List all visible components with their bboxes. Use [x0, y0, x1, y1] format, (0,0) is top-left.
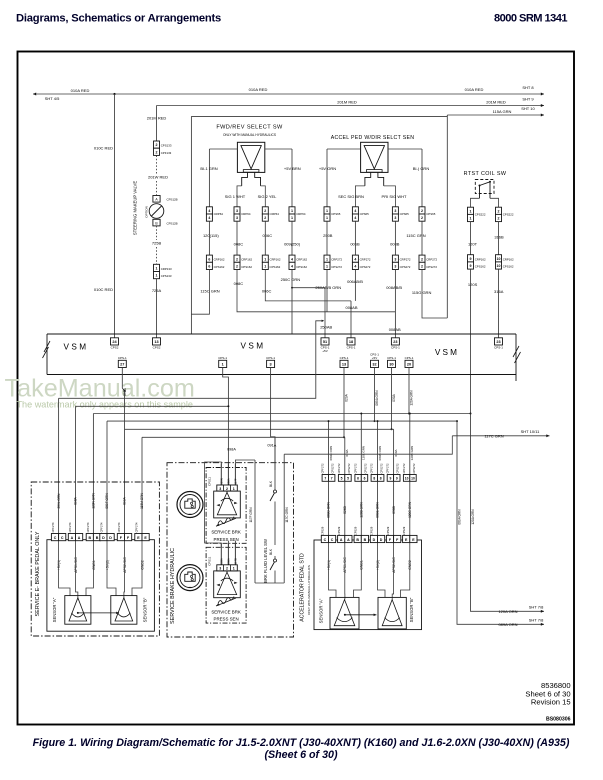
wire col x237 [236, 221, 238, 255]
svg-text:1: 1 [470, 209, 472, 213]
connector CRP162/CPS162 pin 1 [262, 255, 268, 262]
svg-text:6: 6 [208, 265, 210, 269]
accel pedal connector pin D [370, 535, 377, 542]
svg-text:CPS2: CPS2 [153, 345, 161, 349]
svg-text:1: 1 [291, 209, 293, 213]
svg-text:CPS162: CPS162 [214, 265, 225, 269]
svg-text:The watermark only appears on: The watermark only appears on this sampl… [17, 400, 193, 410]
svg-text:CRP133: CRP133 [161, 267, 172, 271]
svg-text:010A RED: 010A RED [249, 87, 268, 92]
svg-text:(Sheet 6 of 30): (Sheet 6 of 30) [264, 749, 337, 761]
svg-text:BLK: BLK [269, 548, 273, 555]
svg-text:APS1-SIG: APS1-SIG [343, 557, 347, 573]
svg-text:6: 6 [208, 257, 210, 261]
svg-text:CPS162: CPS162 [503, 265, 514, 269]
svg-text:CPS11: CPS11 [208, 477, 212, 486]
VSM band top line [47, 333, 516, 335]
svg-text:2: 2 [421, 209, 423, 213]
svg-text:C: C [324, 538, 327, 542]
VSM pin 13 CPS-1 [340, 360, 348, 367]
connector CRP162/CPS162 pin 10 [496, 255, 502, 262]
svg-text:006C: 006C [262, 289, 272, 294]
svg-text:CPS65: CPS65 [360, 212, 370, 216]
svg-text:CPS162: CPS162 [296, 265, 307, 269]
svg-text:Diagrams, Schematics or Arrang: Diagrams, Schematics or Arrangements [16, 12, 221, 24]
svg-text:CPF274: CPF274 [117, 522, 121, 532]
svg-text:1: 1 [233, 487, 235, 491]
svg-text:CRP272: CRP272 [331, 258, 342, 262]
svg-text:CPS162: CPS162 [241, 265, 252, 269]
svg-text:CPS272: CPS272 [426, 265, 437, 269]
brake fluid level switch [274, 437, 276, 490]
svg-text:098A: 098A [74, 496, 78, 504]
svg-text:PRESS SEN: PRESS SEN [214, 537, 239, 542]
svg-text:120T: 120T [468, 242, 478, 247]
svg-text:2: 2 [226, 567, 228, 571]
svg-text:098A: 098A [227, 478, 231, 484]
svg-text:CPS272: CPS272 [331, 463, 335, 474]
brake pedal connector pin F [117, 534, 124, 541]
svg-text:CRP162: CRP162 [214, 258, 225, 262]
svg-text:259L ORN: 259L ORN [57, 493, 61, 509]
svg-text:CPS133: CPS133 [161, 144, 172, 148]
svg-text:B: B [356, 538, 359, 542]
accel sensor B wiring [378, 543, 386, 598]
VSM pin 18 CPS-1 [347, 338, 355, 345]
VSM pin 27 CPS-1 [118, 360, 126, 367]
wire 120G GRN [409, 481, 411, 535]
connector CPS65 pin 3 [392, 207, 398, 214]
VSM pin 30 CPS-1 [388, 360, 396, 367]
wire 089D ORN [328, 481, 330, 535]
svg-text:CPS162: CPS162 [270, 265, 281, 269]
pedal sensor FWD/REV select sw [237, 142, 264, 172]
svg-text:3: 3 [219, 487, 221, 491]
svg-text:SIG 2 YEL: SIG 2 YEL [258, 194, 278, 199]
wire 089A GRN from pin 32 [374, 368, 376, 422]
wire 098A from pin 1 [223, 368, 229, 468]
svg-text:3: 3 [394, 265, 396, 269]
svg-text:030B: 030B [392, 506, 396, 513]
svg-text:010C RED: 010C RED [94, 146, 113, 151]
svg-text:089N: 089N [219, 478, 223, 484]
svg-text:10: 10 [497, 264, 501, 268]
svg-text:D: D [380, 538, 383, 542]
connector CRP64 pin 3 [234, 207, 240, 214]
svg-text:SENSOR "A": SENSOR "A" [319, 598, 324, 623]
svg-text:117C GRN: 117C GRN [484, 434, 503, 439]
svg-text:7: 7 [324, 477, 326, 481]
svg-text:029A: 029A [345, 393, 349, 401]
wire col x327 [326, 221, 328, 255]
svg-text:6: 6 [357, 477, 359, 481]
svg-text:089E ORN: 089E ORN [376, 502, 380, 518]
svg-text:089A ORN: 089A ORN [458, 509, 462, 525]
VSM pin 1 CPS-1 [219, 360, 227, 367]
svg-text:4: 4 [354, 209, 356, 213]
wire 008AB bus [237, 270, 395, 312]
switch bottom tie [255, 582, 284, 584]
svg-text:2: 2 [236, 265, 238, 269]
wire 010A RED top horizontal [33, 93, 544, 95]
svg-text:4: 4 [291, 257, 293, 261]
wire col x422 [421, 221, 423, 255]
svg-text:3: 3 [394, 257, 396, 261]
svg-text:23: 23 [393, 340, 397, 344]
svg-text:CPS29: CPS29 [321, 526, 325, 535]
connector CRP64 pin 2 [262, 207, 268, 214]
svg-text:3: 3 [394, 216, 396, 220]
svg-text:089A GRN: 089A GRN [375, 390, 379, 406]
svg-text:030A: 030A [392, 393, 396, 401]
svg-text:120A GRN: 120A GRN [471, 509, 475, 525]
svg-text:CRP64: CRP64 [241, 212, 251, 216]
svg-text:SERVICE BRK: SERVICE BRK [211, 530, 241, 535]
svg-text:CRP162: CRP162 [296, 258, 307, 262]
svg-text:316B: 316B [494, 235, 504, 240]
svg-text:1: 1 [222, 363, 224, 367]
svg-text:27: 27 [120, 363, 124, 367]
svg-text:CPS-1: CPS-1 [340, 356, 349, 360]
svg-text:ONLY WITH MANUAL HYDRAULICS: ONLY WITH MANUAL HYDRAULICS [223, 133, 276, 137]
svg-text:CPF272: CPF272 [370, 463, 374, 473]
svg-text:250AB: 250AB [320, 325, 332, 330]
svg-text:PRESS SEN: PRESS SEN [214, 617, 239, 622]
svg-text:1: 1 [264, 265, 266, 269]
wire 201M RED to SHT 9 [157, 105, 545, 107]
svg-text:5: 5 [347, 477, 349, 481]
wire col x265.3 [264, 221, 266, 255]
wire drop to brake pedal pin A [75, 406, 77, 533]
connector CPS12B pin B [153, 219, 160, 226]
svg-text:1: 1 [470, 217, 472, 221]
svg-text:5: 5 [341, 477, 343, 481]
svg-text:201M RED: 201M RED [337, 100, 357, 105]
svg-text:CPS11: CPS11 [208, 556, 212, 565]
svg-text:029A: 029A [345, 449, 349, 456]
svg-text:4: 4 [291, 265, 293, 269]
wire 091A from pin 3 [271, 368, 275, 471]
svg-text:010C RED: 010C RED [94, 287, 113, 292]
svg-text:CPS-1: CPS-1 [118, 356, 127, 360]
VSM pin 13 CPS2 [153, 338, 161, 345]
svg-text:32: 32 [372, 363, 376, 367]
wire 120B GRN [360, 481, 362, 535]
svg-text:CPS-1: CPS-1 [387, 356, 396, 360]
svg-text:SERVICE BRAKE HYDRAULIC: SERVICE BRAKE HYDRAULIC [170, 548, 176, 624]
svg-text:CPF274: CPF274 [68, 522, 72, 532]
wire 115A GRN to SHT 10 [447, 114, 544, 116]
svg-text:6: 6 [364, 477, 366, 481]
accelerator inner box [314, 540, 422, 630]
VSM pin 23 CPS-1 [391, 338, 399, 345]
circular connector brake press 2 [177, 565, 203, 591]
svg-text:117B: 117B [234, 558, 238, 564]
wire 120L GRN drop [360, 414, 362, 475]
svg-text:CPS133: CPS133 [161, 274, 172, 278]
service brake press sensor module 1 [206, 468, 246, 544]
svg-text:2: 2 [156, 150, 158, 154]
svg-text:20: 20 [407, 363, 411, 367]
svg-text:7: 7 [331, 477, 333, 481]
wire col x292 [291, 221, 293, 255]
connector CPS65 pin 4 [352, 207, 358, 214]
connector CRP272/CPS272 pin 3 [392, 255, 398, 262]
wire 030A from pin 30 [391, 368, 393, 430]
svg-text:8000 SRM 1341: 8000 SRM 1341 [494, 12, 567, 24]
wire drop to brake pedal pin D [106, 421, 108, 533]
svg-text:CPS272: CPS272 [412, 463, 416, 474]
svg-text:CPS-1: CPS-1 [405, 356, 414, 360]
svg-text:CPS272: CPS272 [331, 265, 342, 269]
svg-text:2: 2 [236, 257, 238, 261]
svg-text:CPS272: CPS272 [396, 463, 400, 474]
svg-text:CPS65: CPS65 [426, 212, 436, 216]
bus line 1 (+5V net) [59, 321, 323, 399]
svg-text:1: 1 [156, 274, 158, 278]
accel pedal connector pin C [321, 535, 328, 542]
wire 250 net [291, 270, 293, 335]
wire 120A GRN to SHT 7/8 [470, 413, 472, 415]
svg-text:BLK: BLK [269, 480, 273, 487]
svg-text:3: 3 [219, 567, 221, 571]
svg-text:250B: 250B [323, 233, 333, 238]
svg-text:CPS-1: CPS-1 [218, 356, 227, 360]
svg-text:2: 2 [264, 209, 266, 213]
svg-text:13: 13 [154, 340, 158, 344]
svg-text:D: D [102, 536, 105, 540]
bus line 5 (030 net) [125, 428, 394, 430]
svg-text:CPF274: CPF274 [99, 522, 103, 532]
VSM pin 51 CPS-1 +5V [321, 338, 329, 345]
svg-text:ONLY WITH MANUAL HYDRAULICS: ONLY WITH MANUAL HYDRAULICS [307, 565, 311, 615]
wire 010C RED vertical [114, 94, 116, 338]
svg-text:089D ORN: 089D ORN [327, 502, 331, 518]
wire 725B [156, 226, 158, 240]
accel pedal connector pin B [354, 535, 361, 542]
svg-text:BI-) GRN: BI-) GRN [413, 166, 430, 171]
svg-text:115M GRN: 115M GRN [140, 492, 144, 508]
svg-text:CPF272: CPF272 [353, 463, 357, 473]
svg-text:BI-1 GRN: BI-1 GRN [200, 166, 217, 171]
svg-text:D: D [373, 538, 376, 542]
accel pedal connector pin A [338, 535, 345, 542]
svg-text:089H ORN: 089H ORN [329, 446, 333, 461]
ACCEL sensor legs [355, 186, 395, 207]
svg-text:CPF274: CPF274 [134, 522, 138, 532]
svg-text:23: 23 [496, 340, 500, 344]
svg-text:CPF133: CPF133 [161, 151, 172, 155]
SERVICE BRAKE HYDRAULIC enclosure [167, 463, 294, 637]
svg-text:2: 2 [421, 265, 423, 269]
svg-text:089A: 089A [219, 558, 223, 564]
svg-text:1: 1 [264, 257, 266, 261]
arrow sensor A to B [78, 612, 119, 614]
wire to VSM pin 18 [350, 301, 352, 338]
connector CPS133/CPF133 [154, 141, 160, 148]
svg-text:250C ORN: 250C ORN [281, 277, 301, 282]
accel pedal connector pin F [386, 535, 393, 542]
brake pedal sensor A [65, 596, 91, 625]
svg-text:117C GRN: 117C GRN [285, 507, 289, 523]
svg-text:CPS29: CPS29 [402, 526, 406, 535]
svg-text:CRP162: CRP162 [270, 258, 281, 262]
wire 026B [344, 481, 346, 535]
svg-text:1: 1 [326, 257, 328, 261]
svg-text:+5V BRN: +5V BRN [284, 166, 301, 171]
svg-text:CRP64: CRP64 [296, 212, 306, 216]
svg-text:CPF274: CPF274 [51, 522, 55, 532]
svg-text:SIG 1 WHT: SIG 1 WHT [225, 194, 246, 199]
wire 725A down to VSM [156, 279, 158, 338]
svg-text:FWD/REV SELECT SW: FWD/REV SELECT SW [216, 125, 283, 131]
connector CRP133/CPS133 [154, 264, 160, 271]
svg-text:13: 13 [342, 363, 346, 367]
svg-text:008AB: 008AB [389, 327, 401, 332]
svg-text:CPS29: CPS29 [370, 526, 374, 535]
wire 098A from pin 27 [122, 368, 124, 392]
svg-text:CRP64: CRP64 [214, 212, 224, 216]
wire drop to brake pedal pin C [58, 398, 60, 533]
svg-text:GND1: GND1 [360, 560, 364, 570]
svg-text:2: 2 [421, 257, 423, 261]
svg-text:SHT 9: SHT 9 [522, 97, 534, 102]
svg-text:008B: 008B [390, 242, 400, 247]
svg-text:2: 2 [421, 216, 423, 220]
service brake press sensor module 2 [206, 547, 246, 623]
brake pedal connector pin A [68, 534, 75, 541]
brake pedal sensor B [111, 596, 137, 625]
svg-text:A: A [78, 536, 81, 540]
svg-text:CPF272: CPF272 [337, 463, 341, 473]
svg-text:A: A [347, 538, 350, 542]
wire 030B [393, 481, 395, 535]
connector CPS222 pin 1 [468, 207, 474, 214]
svg-text:010A RED: 010A RED [71, 88, 90, 93]
svg-text:120L GRN: 120L GRN [362, 446, 366, 460]
FWD sensor legs [237, 186, 265, 207]
arrow accel sensor A to B [345, 614, 377, 616]
svg-text:+5V ORN: +5V ORN [319, 166, 336, 171]
svg-text:4: 4 [354, 265, 356, 269]
svg-text:1: 1 [233, 567, 235, 571]
svg-text:030A: 030A [394, 449, 398, 456]
connector CRP162/CPS162 pin 6 [206, 255, 212, 262]
wire 089N ORN drop [377, 421, 379, 474]
wire 117F GRN riser [254, 460, 256, 583]
svg-text:B: B [88, 536, 91, 540]
svg-text:VSM: VSM [64, 343, 89, 352]
VSM pin 20 CPS-1 [405, 360, 413, 367]
svg-text:Revision 15: Revision 15 [531, 697, 571, 706]
wire 117C GRN riser [283, 454, 285, 583]
svg-text:C: C [54, 536, 57, 540]
svg-text:9: 9 [389, 477, 391, 481]
svg-text:CPS12B: CPS12B [167, 222, 178, 226]
circular connector brake press 1 [177, 492, 203, 518]
svg-text:8: 8 [380, 477, 382, 481]
svg-text:CPS-1: CPS-1 [494, 345, 503, 349]
connector CPS12B pin A [153, 196, 160, 203]
wire 120A GRN from pin 20 [408, 368, 410, 414]
accelerator sensor A [330, 597, 359, 629]
brake pedal inner box [47, 540, 154, 632]
VSM band right edge with break [515, 334, 517, 381]
svg-text:OPTION: OPTION [145, 206, 149, 218]
RTST switch legs [471, 198, 499, 207]
svg-text:CRP272: CRP272 [360, 258, 371, 262]
svg-text:CPF272: CPF272 [386, 463, 390, 473]
svg-text:SERVICE BRK: SERVICE BRK [211, 610, 241, 615]
svg-text:CPF274: CPF274 [86, 522, 90, 532]
svg-text:725B: 725B [152, 241, 162, 246]
brake pedal connector pin D [100, 534, 107, 541]
connector CRP272/CPS272 pin 2 [419, 255, 425, 262]
svg-text:115C GRN: 115C GRN [200, 289, 219, 294]
svg-text:4: 4 [354, 257, 356, 261]
svg-text:A: A [71, 536, 74, 540]
svg-text:CPS-1: CPS-1 [391, 345, 400, 349]
wire 029A drop [344, 437, 346, 474]
module interconnect wires [205, 462, 222, 547]
wire col x209.4 [208, 221, 210, 255]
svg-text:CPS162: CPS162 [475, 265, 486, 269]
svg-text:089F ORN: 089F ORN [105, 493, 109, 509]
svg-text:CRP272: CRP272 [400, 258, 411, 262]
VSM pin 23 CPS-1 right [495, 338, 503, 345]
wire 006AB bus [265, 270, 351, 301]
svg-text:A: A [340, 538, 343, 542]
svg-text:4: 4 [208, 216, 210, 220]
svg-text:117F GRN: 117F GRN [249, 507, 253, 523]
svg-text:120G GRN: 120G GRN [408, 501, 412, 517]
brake sensor A wiring [59, 541, 70, 596]
VSM pin 32 CPS-1 +5V [371, 360, 379, 367]
svg-text:SENSOR "B": SENSOR "B" [143, 597, 148, 622]
brake pedal connector pin E [135, 534, 142, 541]
wire 120N GRN drop [409, 414, 411, 475]
svg-text:SHT 4/5: SHT 4/5 [45, 96, 60, 101]
svg-text:120(115): 120(115) [203, 233, 219, 238]
ACCEL side wires +5V ORN / BI-) GRN [327, 148, 361, 150]
connector CPS65 pin 1 [324, 207, 330, 214]
brake sensor B wiring [107, 541, 116, 596]
wire drop to brake pedal pin B [92, 414, 94, 534]
svg-text:SHT 7/8: SHT 7/8 [529, 618, 544, 623]
svg-text:008C: 008C [234, 281, 244, 286]
svg-text:CPS65: CPS65 [400, 212, 410, 216]
svg-text:4: 4 [354, 216, 356, 220]
svg-text:1: 1 [326, 209, 328, 213]
svg-text:CPS272: CPS272 [360, 265, 371, 269]
wire 089A ORN to SHT 7/8 [456, 420, 458, 422]
svg-text:CPF272: CPF272 [402, 463, 406, 473]
svg-text:Figure 1. Wiring Diagram/Schem: Figure 1. Wiring Diagram/Schematic for J… [33, 737, 570, 749]
svg-text:BRK FLUID LEVEL SW: BRK FLUID LEVEL SW [263, 539, 268, 583]
svg-text:2: 2 [498, 209, 500, 213]
bus line 3 (120 net) [93, 413, 470, 415]
diagram border frame [18, 52, 575, 725]
svg-text:CPS272: CPS272 [363, 463, 367, 474]
svg-text:1: 1 [326, 216, 328, 220]
svg-text:2: 2 [156, 143, 158, 147]
svg-text:026B: 026B [343, 506, 347, 513]
svg-text:10: 10 [497, 257, 501, 261]
svg-text:3: 3 [270, 363, 272, 367]
VSM pin 3 CPS-1 [267, 360, 275, 367]
svg-text:008AB/B: 008AB/B [386, 285, 402, 290]
svg-text:VSM: VSM [435, 348, 459, 357]
